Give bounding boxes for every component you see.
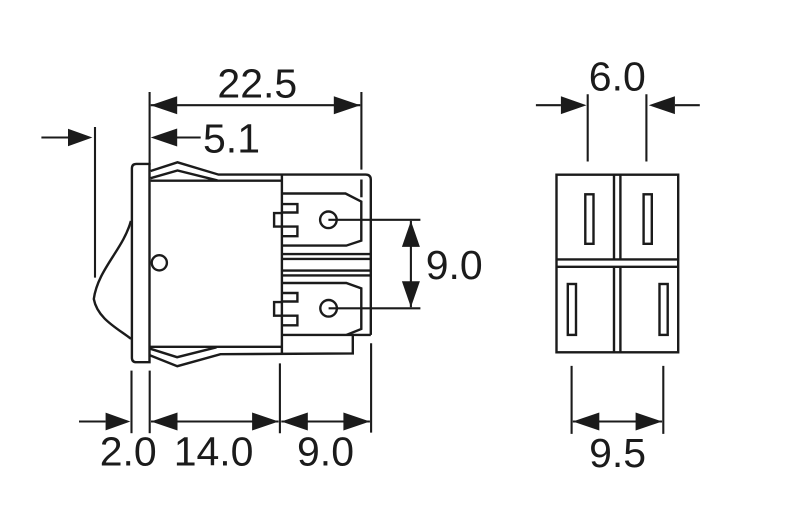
leader line T2 xyxy=(329,307,421,309)
mid band line 3 xyxy=(282,269,371,271)
extension line flange left bottom xyxy=(130,371,132,434)
terminal T2 tab xyxy=(274,302,282,316)
body bottom line xyxy=(150,346,282,348)
svg-text:22.5: 22.5 xyxy=(217,61,297,107)
housing inner wall segment xyxy=(360,180,362,198)
rear divider vertical left lower xyxy=(613,267,615,353)
svg-text:6.0: 6.0 xyxy=(589,54,646,100)
dim 9.5 arrow right xyxy=(636,413,663,431)
top outer chevron and housing top and right edge xyxy=(151,162,371,335)
top inner chevron xyxy=(151,171,218,181)
dim 6.0 right arrow line xyxy=(675,104,700,106)
dim 14.0 line xyxy=(151,420,279,422)
rear divider vertical right upper xyxy=(619,175,621,260)
dim 14.0 arrow right xyxy=(252,413,279,431)
dim 14.0 arrow left xyxy=(151,413,178,431)
svg-text:9.0: 9.0 xyxy=(297,429,354,475)
terminal block T1 outline xyxy=(282,194,361,246)
dim 9.0b arrow left xyxy=(281,413,308,431)
leader line T1 xyxy=(328,219,420,221)
dim 5.1 arrow xyxy=(151,129,178,147)
mid band line 2 xyxy=(282,258,371,260)
pivot circle xyxy=(152,255,167,270)
dim 2.0 arrow line xyxy=(79,420,106,422)
rear divider horizontal lower xyxy=(557,266,679,268)
rocker extent arrow xyxy=(41,136,68,138)
dim 6.0 right arrowhead xyxy=(649,96,675,114)
body top inner line xyxy=(151,179,282,181)
extension line 6.0 right xyxy=(645,94,647,161)
housing bottom edge xyxy=(282,334,371,336)
terminal T2 notch upper xyxy=(282,293,298,302)
dim 5.1 line xyxy=(177,136,201,138)
extension line flange right bottom xyxy=(149,371,151,434)
rear divider vertical right lower xyxy=(619,267,621,353)
terminal T1 notch upper xyxy=(282,204,298,212)
mounting flange xyxy=(132,164,150,362)
rear slot bottom-left xyxy=(568,284,576,335)
extension line body-right top xyxy=(360,92,362,170)
dim 9.0 arrow up xyxy=(402,221,420,247)
svg-text:14.0: 14.0 xyxy=(174,429,254,475)
bottom outer chevron and base protrusion xyxy=(150,335,353,366)
dim 2.0 arrowhead xyxy=(106,413,131,431)
rear slot bottom-right xyxy=(660,284,668,335)
extension line 9.5 left xyxy=(571,366,573,434)
dim 9.0b arrow right xyxy=(343,413,370,431)
dim 9.5 line xyxy=(573,420,662,422)
rear divider horizontal upper xyxy=(557,258,679,260)
bottom inner chevron xyxy=(150,347,216,357)
mid band line 1 xyxy=(282,253,371,255)
mid band line 4 xyxy=(282,274,371,276)
terminal block T2 outline xyxy=(282,283,361,335)
rocker extent extension line xyxy=(94,127,96,278)
rocker extent arrowhead xyxy=(68,129,92,147)
svg-text:2.0: 2.0 xyxy=(100,429,157,475)
extension line 9.5 right xyxy=(662,366,664,434)
dim 9.0 vertical line xyxy=(410,221,412,307)
rear divider vertical left upper xyxy=(613,175,615,260)
dim 9.0 arrow down xyxy=(402,281,420,307)
terminal T1 tab xyxy=(274,213,282,227)
body right edge xyxy=(281,175,283,355)
terminal T2 notch lower xyxy=(282,316,298,326)
rear view outer box xyxy=(557,175,679,353)
svg-text:9.5: 9.5 xyxy=(589,430,646,476)
rocker paddle xyxy=(94,221,131,339)
extension line 6.0 left xyxy=(587,94,589,161)
svg-text:5.1: 5.1 xyxy=(203,115,260,161)
extension line body-left top xyxy=(149,92,151,165)
terminal T1 hole xyxy=(320,212,337,229)
rear slot top-left xyxy=(585,194,593,244)
extension line body right bottom xyxy=(279,363,281,433)
rear slot top-right xyxy=(644,194,652,244)
extension line housing right bottom xyxy=(370,343,372,432)
dim 6.0 left arrow line xyxy=(536,104,561,106)
dim 22.5 arrow left xyxy=(151,96,178,114)
dim 6.0 left arrowhead xyxy=(561,96,587,114)
dim 22.5 arrow right xyxy=(334,96,361,114)
terminal T1 notch lower xyxy=(282,227,298,237)
svg-text:9.0: 9.0 xyxy=(426,242,483,288)
dim 9.0b line xyxy=(281,420,370,422)
terminal T2 hole xyxy=(320,300,337,317)
dim 22.5 line xyxy=(151,104,361,106)
dim 9.5 arrow left xyxy=(573,413,600,431)
